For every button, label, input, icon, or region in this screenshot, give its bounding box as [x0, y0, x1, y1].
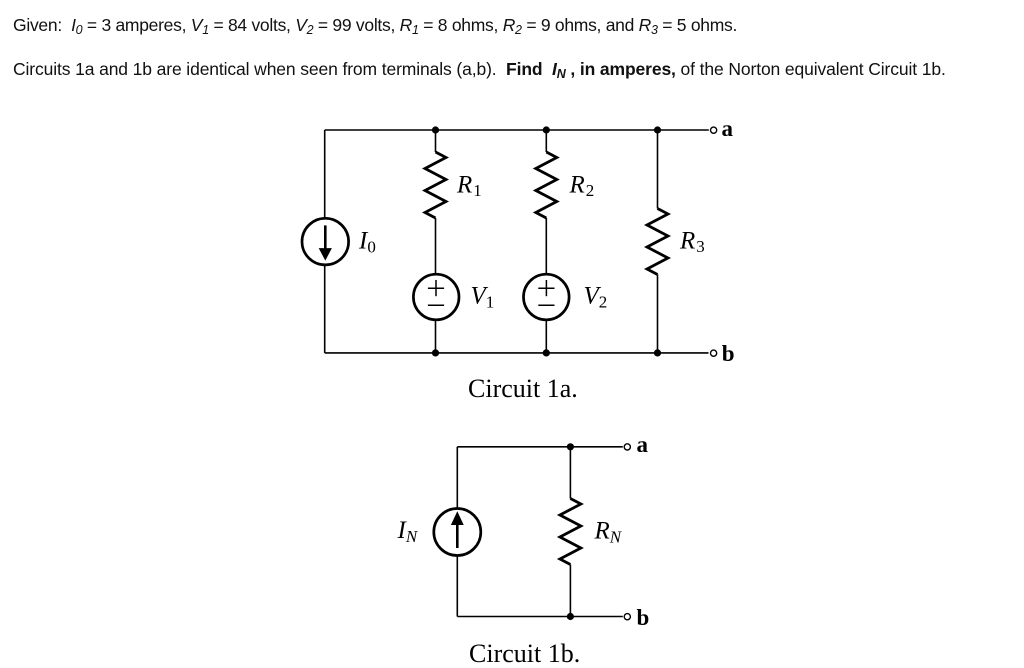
svg-text:a: a: [637, 432, 649, 457]
current source IN circle: [434, 509, 481, 556]
wire: R2 branch top stub: [545, 130, 547, 152]
wire: R1 to V1: [435, 218, 437, 273]
node dot: R1 bottom: [432, 349, 439, 356]
terminal a (1b) open circle: [624, 444, 630, 450]
wire: V2 to bottom rail: [545, 321, 547, 353]
wire: R2 to V2: [545, 218, 547, 273]
terminal b (1a) open circle: [711, 350, 717, 356]
resistor RN zigzag: [560, 499, 581, 565]
wire: RN top stub: [569, 447, 571, 499]
svg-text:I0: I0: [358, 228, 376, 257]
V2 plus sign: [538, 280, 554, 305]
current source I0 circle: [302, 218, 349, 265]
node dot: R2 bottom: [543, 349, 550, 356]
voltage source V2 circle: [524, 274, 570, 320]
wire: 1b bottom rail: [457, 616, 623, 618]
terminal a (1a) open circle: [711, 127, 717, 133]
V1 plus sign: [428, 280, 444, 305]
current source I0 arrow: [319, 225, 332, 260]
resistor R1 zigzag: [425, 152, 446, 218]
svg-text:Circuit 1a.: Circuit 1a.: [468, 374, 578, 403]
node dot: R3 bottom: [654, 349, 661, 356]
wire: 1b left branch lower: [456, 556, 458, 616]
resistor R3 zigzag: [647, 209, 668, 275]
node dot: RN bottom: [567, 613, 574, 620]
voltage source V1 circle: [413, 274, 459, 320]
svg-text:R3: R3: [679, 227, 705, 256]
wire: R3 branch top stub: [657, 130, 659, 209]
terminal b (1b) open circle: [624, 614, 630, 620]
wire: left branch lower segment: [324, 266, 326, 353]
wire: R3 bottom stub: [657, 275, 659, 353]
svg-text:V2: V2: [584, 283, 608, 312]
svg-text:R1: R1: [456, 171, 482, 200]
V2 minus sign: [538, 304, 554, 306]
wire: 1b top rail: [457, 446, 623, 448]
node dot: R1 top: [432, 126, 439, 133]
wire: 1b left branch upper: [456, 447, 458, 508]
node dot: R2 top: [543, 126, 550, 133]
wire: R1 branch top stub: [435, 130, 437, 152]
node dot: R3 top: [654, 126, 661, 133]
svg-text:RN: RN: [594, 518, 623, 547]
wire: V1 to bottom rail: [435, 321, 437, 353]
svg-text:a: a: [722, 116, 734, 141]
wire: circuit 1a bottom rail: [325, 352, 709, 354]
svg-text:V1: V1: [471, 283, 495, 312]
current source IN arrow (up): [451, 511, 464, 548]
problem text line 2: [13, 59, 946, 80]
svg-text:IN: IN: [397, 517, 419, 546]
wire: RN bottom stub: [569, 565, 571, 617]
svg-text:R2: R2: [569, 171, 595, 200]
node dot: RN top: [567, 443, 574, 450]
wire: left branch upper segment: [324, 130, 326, 217]
resistor R2 zigzag: [536, 152, 557, 218]
wire: circuit 1a top rail: [325, 129, 709, 131]
svg-text:Circuit 1b.: Circuit 1b.: [469, 639, 580, 668]
svg-text:b: b: [722, 341, 735, 366]
svg-text:b: b: [637, 605, 650, 630]
given text line 1: [13, 15, 737, 36]
V1 minus sign: [428, 304, 444, 306]
